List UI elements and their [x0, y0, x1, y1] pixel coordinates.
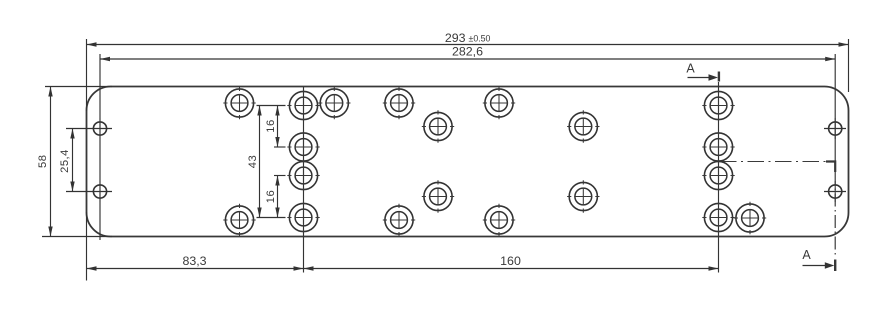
svg-text:282,6: 282,6	[452, 45, 483, 59]
svg-text:83,3: 83,3	[182, 254, 206, 268]
svg-text:16: 16	[265, 119, 277, 132]
svg-text:±0.50: ±0.50	[469, 34, 491, 44]
svg-text:43: 43	[247, 155, 259, 168]
svg-text:25,4: 25,4	[59, 149, 71, 173]
svg-text:160: 160	[500, 254, 521, 268]
svg-text:A: A	[802, 248, 811, 262]
svg-text:58: 58	[37, 155, 49, 168]
svg-text:A: A	[686, 62, 695, 76]
svg-text:16: 16	[265, 190, 277, 203]
svg-text:293: 293	[445, 31, 466, 45]
